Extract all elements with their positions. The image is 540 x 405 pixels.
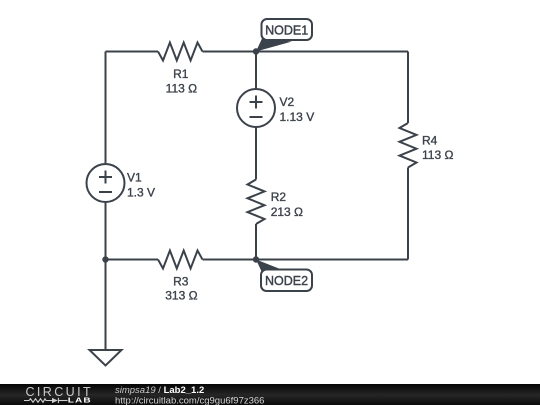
wire right vertical lower — [407, 168, 409, 260]
CircuitLab logo resistor-diode glyph — [24, 398, 68, 403]
wire center vertical middle — [255, 127, 257, 180]
ground — [90, 350, 122, 366]
wire bottom-middle segment — [203, 259, 257, 261]
resistor R1 — [158, 43, 203, 96]
resistor R3 — [158, 251, 203, 303]
footer bar — [0, 384, 540, 405]
wire bottom-right segment — [256, 259, 408, 261]
node junction bottom-left — [102, 256, 108, 262]
svg-text:simpsa19 / Lab2_1.2: simpsa19 / Lab2_1.2 — [115, 385, 204, 396]
wire center vertical lower — [255, 224, 257, 260]
node NODE1 — [253, 19, 312, 55]
wire ground stem — [105, 260, 107, 351]
svg-text:LAB: LAB — [68, 396, 92, 404]
wire right vertical upper — [407, 52, 409, 124]
wire left vertical lower — [105, 202, 107, 260]
wire center vertical upper — [255, 52, 257, 90]
voltage source V1 — [87, 164, 156, 202]
resistor R2 — [248, 180, 304, 225]
wire top-right segment — [203, 51, 409, 53]
wire left vertical upper — [105, 52, 107, 165]
wire bottom-left segment — [106, 259, 159, 261]
resistor R4 — [400, 123, 454, 168]
svg-text:http://circuitlab.com/cg9gu6f9: http://circuitlab.com/cg9gu6f97z366 — [115, 396, 264, 405]
wire top-left segment — [106, 51, 159, 53]
voltage source V2 — [237, 89, 314, 127]
node NODE2 — [253, 256, 312, 291]
